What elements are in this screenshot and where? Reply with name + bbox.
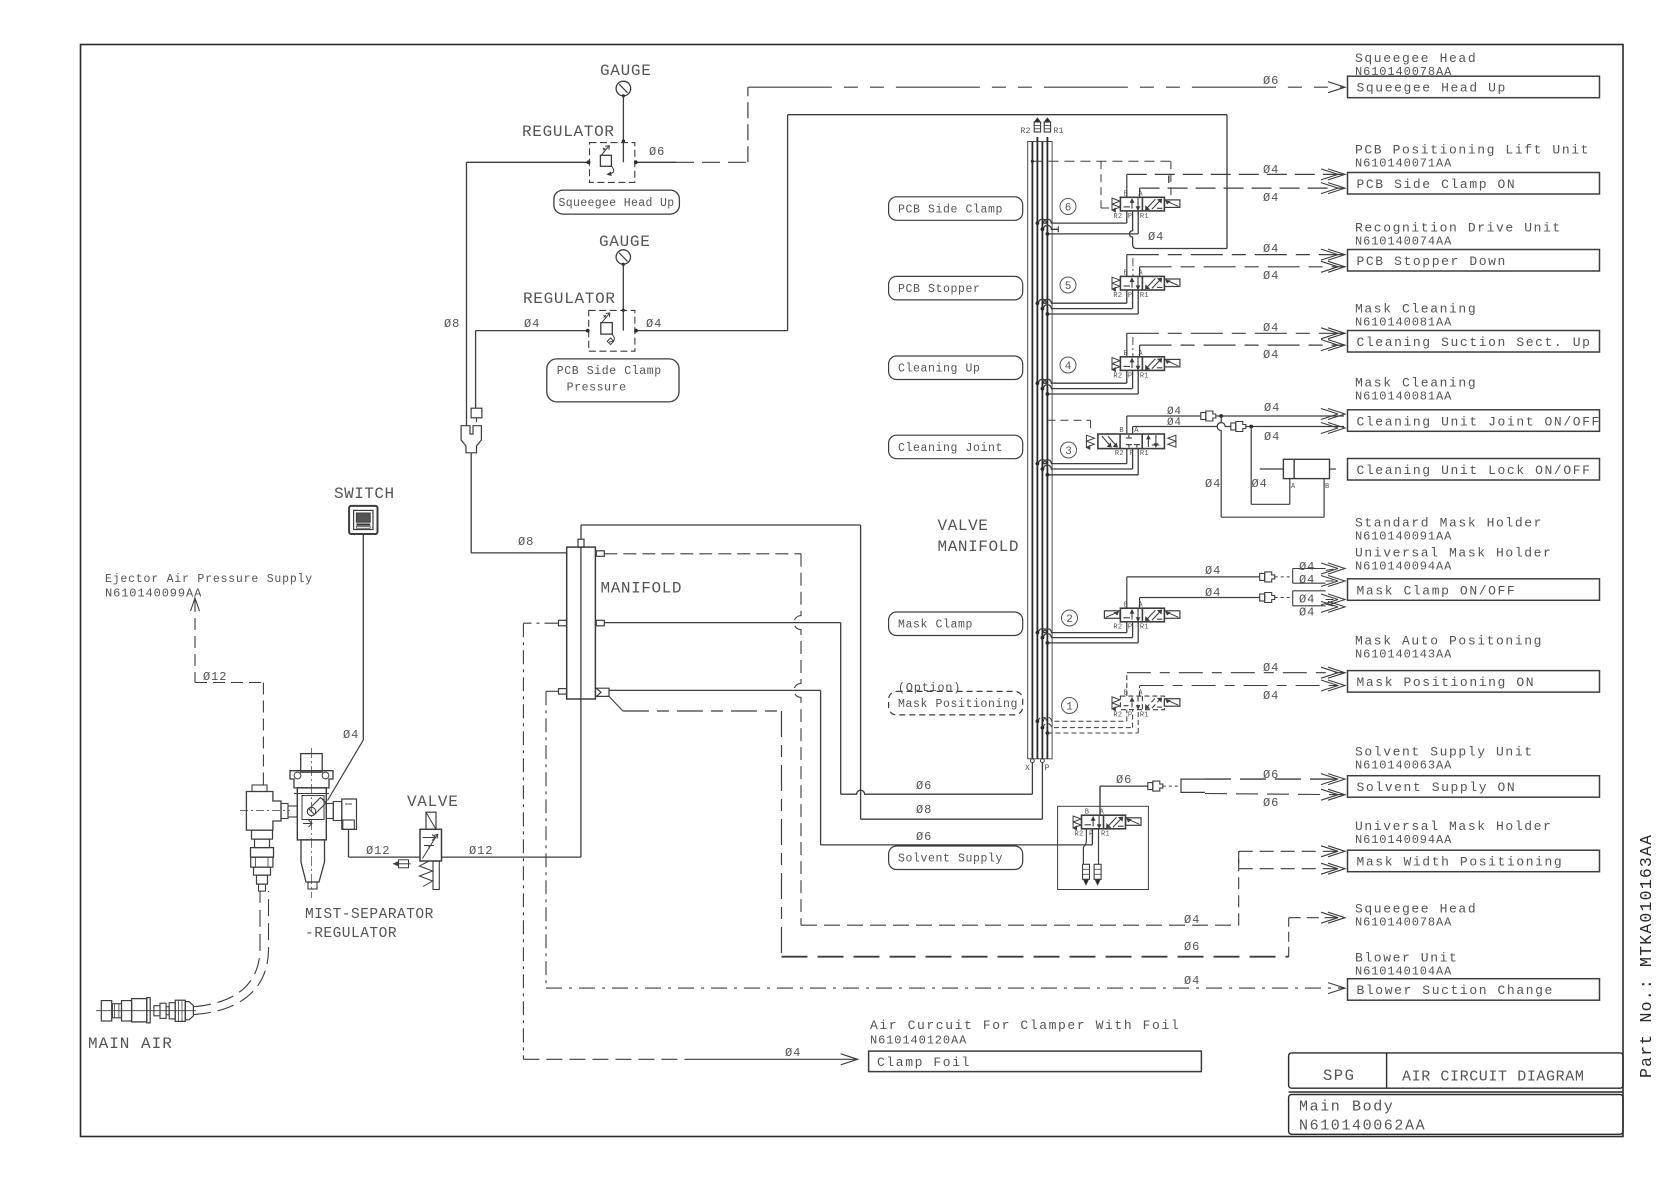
muffler M-S1	[1083, 864, 1090, 879]
svg-text:R2: R2	[1115, 450, 1124, 458]
valve 1 feeds (dashed)	[1037, 717, 1126, 721]
svg-text:R1: R1	[1140, 712, 1149, 720]
svg-text:Ø4: Ø4	[1299, 606, 1315, 620]
arrow blower	[1328, 983, 1345, 994]
svg-text:R2: R2	[1075, 831, 1084, 839]
svg-text:Ø4: Ø4	[1263, 689, 1279, 703]
svg-text:Ø6: Ø6	[916, 779, 932, 793]
svg-text:Blower Suction Change: Blower Suction Change	[1357, 983, 1554, 998]
label box Mask Positioning (option)	[889, 691, 1023, 715]
socket box B	[1293, 569, 1326, 584]
svg-text:Cleaning Suction Sect. Up: Cleaning Suction Sect. Up	[1357, 335, 1592, 350]
svg-text:Ø12: Ø12	[366, 844, 390, 858]
svg-text:Ø4: Ø4	[785, 1046, 801, 1060]
label box Squeegee Head Up (rounded)	[554, 190, 680, 214]
muffler M-R2	[1034, 118, 1040, 122]
svg-text:N610140104AA: N610140104AA	[1355, 965, 1452, 979]
svg-text:Part No.: MTKA010163AA: Part No.: MTKA010163AA	[1637, 834, 1656, 1078]
svg-text:R1: R1	[1054, 127, 1064, 136]
svg-text:PCB Stopper Down: PCB Stopper Down	[1357, 254, 1507, 269]
svg-text:Mask Cleaning: Mask Cleaning	[1355, 302, 1477, 317]
svg-text:R2: R2	[1021, 127, 1031, 136]
wire gauge G1 stem	[622, 96, 624, 163]
svg-text:Cleaning Joint: Cleaning Joint	[898, 442, 1003, 455]
manifold right fitting 1 (to mask width)	[596, 551, 604, 557]
svg-text:Cleaning Up: Cleaning Up	[898, 363, 981, 376]
svg-text:Ø4: Ø4	[1205, 586, 1221, 600]
svg-text:Ø4: Ø4	[1299, 573, 1315, 587]
label box Clamp Foil	[869, 1051, 1202, 1072]
svg-text:Universal Mask Holder: Universal Mask Holder	[1355, 819, 1552, 834]
svg-text:Ø4: Ø4	[1148, 230, 1164, 244]
wire regulator R-B row	[476, 330, 589, 332]
valve 3 (Cleaning Joint, 5/3)	[1061, 442, 1077, 458]
svg-text:Ø12: Ø12	[469, 844, 493, 858]
svg-text:GAUGE: GAUGE	[600, 62, 652, 80]
svg-text:B: B	[1124, 350, 1129, 358]
solvent valve A out	[1099, 786, 1101, 815]
svg-text:N610140143AA: N610140143AA	[1355, 648, 1452, 662]
svg-text:P: P	[1128, 372, 1133, 380]
svg-text:Universal Mask Holder: Universal Mask Holder	[1355, 546, 1552, 561]
svg-text:6: 6	[1065, 203, 1072, 215]
svg-text:4: 4	[1065, 361, 1072, 373]
wire manifold top to bus P	[580, 525, 582, 539]
svg-text:5: 5	[1065, 281, 1072, 293]
svg-text:P: P	[1128, 712, 1133, 720]
valve 2 feeds	[1037, 629, 1126, 633]
arrow mask width 2	[1321, 863, 1345, 874]
svg-text:N610140094AA: N610140094AA	[1355, 833, 1452, 847]
svg-text:Ø6: Ø6	[1263, 74, 1279, 88]
coupling CP5	[1148, 783, 1153, 790]
svg-text:R1: R1	[1140, 372, 1149, 380]
svg-text:Ø4: Ø4	[1184, 913, 1200, 927]
wire manifold to solvent valve P	[609, 689, 821, 691]
svg-text:R2: R2	[1113, 372, 1122, 380]
arrow to Squeegee Head Up	[1328, 82, 1345, 93]
socket box A	[1293, 591, 1326, 606]
svg-text:Standard Mask Holder: Standard Mask Holder	[1355, 516, 1543, 531]
label box Solvent Supply	[889, 846, 1023, 870]
svg-text:N610140078AA: N610140078AA	[1355, 916, 1452, 930]
svg-text:B: B	[1119, 427, 1124, 435]
svg-text:Squeegee Head: Squeegee Head	[1355, 902, 1477, 917]
svg-text:Solvent Supply: Solvent Supply	[898, 853, 1003, 866]
svg-text:Ejector Air Pressure Supply: Ejector Air Pressure Supply	[105, 573, 313, 586]
svg-text:PCB Side Clamp: PCB Side Clamp	[898, 204, 1003, 217]
solvent valve P in	[1091, 830, 1093, 845]
cylinder (cleaning unit lock)	[1283, 459, 1329, 478]
svg-text:AIR CIRCUIT DIAGRAM: AIR CIRCUIT DIAGRAM	[1402, 1069, 1584, 1086]
svg-text:N610140074AA: N610140074AA	[1355, 235, 1452, 249]
valve 3 outputs to couplings	[1126, 416, 1128, 434]
svg-text:3: 3	[1065, 446, 1072, 458]
manifold	[567, 547, 596, 699]
wire mask width supply dashed	[604, 553, 801, 555]
svg-text:Ø4: Ø4	[1299, 593, 1315, 607]
label box Cleaning Up	[889, 356, 1023, 380]
svg-text:1: 1	[1066, 702, 1073, 714]
valve 4 pilot centerline	[1132, 337, 1134, 357]
svg-text:-REGULATOR: -REGULATOR	[305, 926, 397, 942]
hose main air to mist separator	[194, 891, 260, 1007]
svg-text:VALVE: VALVE	[407, 793, 459, 811]
coupling CP1	[1201, 413, 1206, 420]
svg-text:N610140120AA: N610140120AA	[870, 1034, 967, 1048]
svg-text:2: 2	[1066, 614, 1073, 626]
wire dashed to Squeegee Head Up riser	[676, 161, 748, 163]
coupling CP4	[1260, 594, 1265, 601]
label box PCB Stopper	[889, 276, 1023, 300]
label box PCB Side Clamp Pressure (rounded)	[547, 359, 679, 402]
valve 6 (PCB Side Clamp)	[1060, 199, 1076, 215]
svg-text:MIST-SEPARATOR: MIST-SEPARATOR	[305, 907, 434, 923]
svg-text:Cleaning Unit Joint ON/OFF: Cleaning Unit Joint ON/OFF	[1357, 414, 1601, 429]
manifold right fitting 3 (arrow, solvent + squeegee)	[596, 688, 609, 696]
svg-text:Ø4: Ø4	[1205, 564, 1221, 578]
svg-text:SPG: SPG	[1323, 1067, 1355, 1085]
svg-text:Ø6: Ø6	[1116, 773, 1132, 787]
valve 5 feeds	[1037, 299, 1126, 303]
svg-text:N610140062AA: N610140062AA	[1299, 1118, 1426, 1135]
svg-text:MANIFOLD: MANIFOLD	[601, 580, 683, 598]
wire gauge G2 stem	[622, 264, 624, 330]
valve 1 outputs (dashed)	[1126, 673, 1128, 696]
svg-text:B: B	[1124, 689, 1129, 697]
arrow mask width 1	[1321, 846, 1345, 857]
svg-text:Ø8: Ø8	[916, 803, 932, 817]
mist-separator-regulator	[311, 748, 313, 898]
wire to cylinder port B	[1219, 414, 1223, 418]
svg-text:Ø6: Ø6	[1184, 940, 1200, 954]
label box PCB Side Clamp	[889, 197, 1023, 221]
valve 6 outputs	[1126, 174, 1128, 197]
wire riser to regulator R-A	[466, 162, 468, 425]
svg-text:PCB Stopper: PCB Stopper	[898, 283, 981, 296]
wire clamp foil	[523, 622, 558, 624]
svg-text:Clamp Foil: Clamp Foil	[877, 1055, 971, 1070]
fitting on Y right branch	[471, 408, 482, 418]
svg-text:Pressure: Pressure	[567, 382, 627, 395]
valve 3 pilot stubs	[1047, 419, 1090, 421]
wire manifold to bus X	[604, 622, 840, 624]
arrow ejector supply (up)	[191, 598, 200, 611]
svg-text:B: B	[1124, 270, 1129, 278]
svg-text:R1: R1	[1140, 292, 1149, 300]
svg-text:PCB Positioning Lift Unit: PCB Positioning Lift Unit	[1355, 143, 1590, 158]
valve 5 (PCB Stopper)	[1060, 277, 1076, 293]
svg-text:R1: R1	[1101, 831, 1110, 839]
label box Cleaning Unit Lock	[1348, 459, 1600, 481]
svg-text:N610140071AA: N610140071AA	[1355, 157, 1452, 171]
svg-text:B: B	[1325, 483, 1330, 491]
wire squeegee head up line	[748, 86, 1344, 88]
svg-text:Ø4: Ø4	[1299, 560, 1315, 574]
svg-text:X: X	[1025, 764, 1030, 773]
svg-text:Ø4: Ø4	[1263, 163, 1279, 177]
svg-text:B: B	[1124, 601, 1129, 609]
svg-text:N610140091AA: N610140091AA	[1355, 530, 1452, 544]
svg-text:Ø6: Ø6	[649, 145, 665, 159]
svg-text:R2: R2	[1113, 712, 1122, 720]
svg-text:MAIN AIR: MAIN AIR	[88, 1035, 173, 1053]
svg-text:R1: R1	[1140, 213, 1149, 221]
wire blower	[546, 690, 559, 692]
svg-text:REGULATOR: REGULATOR	[522, 123, 615, 141]
wire switch to mist separator	[362, 534, 364, 740]
svg-text:MANIFOLD: MANIFOLD	[938, 538, 1020, 556]
svg-text:B: B	[1124, 191, 1129, 199]
svg-text:PCB Side Clamp: PCB Side Clamp	[557, 365, 662, 378]
svg-text:Ø4: Ø4	[646, 317, 662, 331]
valve 6 pilot lines	[1032, 160, 1171, 162]
svg-text:A: A	[1291, 483, 1296, 491]
svg-text:Mask Positioning ON: Mask Positioning ON	[1357, 675, 1536, 690]
svg-text:B: B	[1085, 808, 1090, 816]
wire Y to manifold	[470, 453, 472, 553]
valve 2 outputs	[1126, 577, 1128, 608]
svg-text:Air Curcuit For Clamper With F: Air Curcuit For Clamper With Foil	[870, 1018, 1180, 1033]
arrow clamp foil	[841, 1054, 858, 1065]
svg-text:Solvent Supply Unit: Solvent Supply Unit	[1355, 745, 1534, 760]
svg-text:Ø4: Ø4	[1264, 401, 1280, 415]
valve V1 pilot stub	[397, 863, 411, 865]
svg-text:Ø4: Ø4	[524, 317, 540, 331]
svg-text:VALVE: VALVE	[938, 517, 989, 535]
solvent plug fork	[1181, 779, 1205, 792]
valve 3 feeds	[1037, 460, 1126, 464]
bus rail R1	[1046, 137, 1048, 759]
svg-text:Ø12: Ø12	[203, 670, 227, 684]
svg-text:PCB Side Clamp ON: PCB Side Clamp ON	[1357, 177, 1517, 192]
svg-text:Mask Clamp ON/OFF: Mask Clamp ON/OFF	[1357, 583, 1517, 598]
valve 4 feeds	[1037, 379, 1126, 383]
valve 4 outputs	[1126, 333, 1128, 357]
svg-text:REGULATOR: REGULATOR	[523, 290, 616, 308]
manifold internal line (Ø12 through)	[580, 547, 582, 857]
svg-text:R1: R1	[1140, 450, 1149, 458]
tick near valve 6 outputs	[1168, 176, 1170, 184]
svg-text:Ø6: Ø6	[1263, 796, 1279, 810]
svg-text:R2: R2	[1113, 292, 1122, 300]
wire mist separator out	[348, 829, 350, 857]
svg-text:Mask Clamp: Mask Clamp	[898, 619, 973, 632]
muffler M-S2	[1094, 864, 1101, 879]
title block	[1289, 1053, 1623, 1088]
svg-text:(Option): (Option)	[898, 681, 961, 695]
wire regulator R-A row	[467, 161, 590, 163]
svg-text:N610140094AA: N610140094AA	[1355, 560, 1452, 574]
manifold left fitting 2 (blower)	[559, 689, 567, 695]
bus rail P	[1041, 142, 1043, 759]
svg-text:Ø4: Ø4	[343, 728, 359, 742]
wire to cylinder port A	[1249, 425, 1253, 429]
svg-text:A: A	[1134, 427, 1139, 435]
manifold top fitting	[578, 539, 584, 547]
coupling CP3	[1260, 573, 1265, 580]
label box Mask Clamp	[889, 612, 1023, 636]
wire ejector dashed	[194, 600, 196, 683]
svg-text:Cleaning Unit Lock ON/OFF: Cleaning Unit Lock ON/OFF	[1357, 463, 1592, 478]
label box Cleaning Joint	[889, 435, 1023, 459]
svg-text:N610140081AA: N610140081AA	[1355, 390, 1452, 404]
valve V1 spring	[419, 861, 432, 887]
solvent valve R1 to muffler	[1098, 830, 1100, 865]
svg-text:Ø4: Ø4	[1205, 477, 1221, 491]
svg-text:GAUGE: GAUGE	[599, 233, 651, 251]
svg-text:P: P	[1128, 213, 1133, 221]
valve 5 outputs	[1126, 255, 1128, 277]
svg-text:Main Body: Main Body	[1299, 1099, 1394, 1116]
wire riser to regulator R-B	[475, 331, 477, 409]
svg-text:Mask Cleaning: Mask Cleaning	[1355, 376, 1477, 391]
svg-text:Ø8: Ø8	[518, 535, 534, 549]
svg-text:Mask Positioning: Mask Positioning	[898, 698, 1018, 711]
svg-text:N610140081AA: N610140081AA	[1355, 316, 1452, 330]
wire squeegee branch (diagonal + dash)	[609, 696, 623, 711]
valve 5 pilot centerline	[1132, 258, 1134, 276]
solvent valve enclosure	[1058, 806, 1149, 889]
solvent valve (5/2)	[1082, 815, 1126, 829]
svg-text:Ø4: Ø4	[1184, 974, 1200, 988]
svg-text:Ø4: Ø4	[1252, 477, 1268, 491]
valve 6 feeds	[1037, 219, 1126, 223]
valve manifold enclosure	[1028, 142, 1052, 759]
svg-text:P: P	[1045, 764, 1050, 773]
Y connector	[461, 426, 481, 453]
svg-text:P: P	[1128, 292, 1133, 300]
svg-text:R2: R2	[1113, 213, 1122, 221]
svg-text:Ø4: Ø4	[1264, 430, 1280, 444]
wire reg2 to valve6 P (big loop)	[787, 115, 789, 331]
bus rail X	[1031, 142, 1033, 759]
valve 2 (Mask Clamp)	[1062, 610, 1078, 626]
svg-text:Ø4: Ø4	[1263, 191, 1279, 205]
coupling CP2	[1231, 423, 1236, 430]
solvent valve B to muffler	[1083, 830, 1086, 865]
svg-text:Ø8: Ø8	[444, 317, 460, 331]
svg-text:Ø6: Ø6	[1263, 768, 1279, 782]
svg-text:P: P	[1128, 624, 1133, 632]
svg-text:Squeegee Head Up: Squeegee Head Up	[559, 197, 675, 210]
svg-text:Ø4: Ø4	[1263, 321, 1279, 335]
svg-text:Solvent Supply ON: Solvent Supply ON	[1357, 780, 1517, 795]
svg-text:Ø6: Ø6	[916, 830, 932, 844]
svg-text:R1: R1	[1140, 624, 1149, 632]
svg-text:R2: R2	[1113, 624, 1122, 632]
wire valve out to manifold riser	[442, 856, 581, 858]
arrow squeegee head	[1321, 912, 1345, 923]
manifold right fitting 2 (to bus X)	[596, 620, 604, 626]
svg-text:Blower Unit: Blower Unit	[1355, 951, 1458, 966]
svg-text:Ø4: Ø4	[1263, 269, 1279, 283]
svg-text:Ø4: Ø4	[1263, 242, 1279, 256]
svg-text:N610140063AA: N610140063AA	[1355, 759, 1452, 773]
svg-text:Mask Width Positioning: Mask Width Positioning	[1357, 855, 1564, 870]
svg-text:Squeegee Head: Squeegee Head	[1355, 51, 1477, 66]
svg-text:Mask Auto Positoning: Mask Auto Positoning	[1355, 634, 1543, 649]
svg-text:Ø4: Ø4	[1263, 661, 1279, 675]
muffler M-R1	[1044, 118, 1050, 122]
svg-text:Recognition Drive Unit: Recognition Drive Unit	[1355, 221, 1562, 236]
valve 4 (Cleaning Up)	[1060, 357, 1076, 373]
svg-text:Ø4: Ø4	[1167, 417, 1182, 429]
svg-text:SWITCH: SWITCH	[334, 485, 395, 503]
bus rail R2	[1036, 137, 1038, 759]
manifold left fitting 1 (clamp foil)	[559, 620, 567, 626]
svg-text:Squeegee Head Up: Squeegee Head Up	[1357, 81, 1507, 96]
valve 1 (Mask Positioning, option)	[1062, 698, 1078, 714]
bus bottom ports	[1031, 759, 1035, 763]
svg-text:N610140099AA: N610140099AA	[105, 587, 202, 601]
svg-text:Ø4: Ø4	[1263, 348, 1279, 362]
